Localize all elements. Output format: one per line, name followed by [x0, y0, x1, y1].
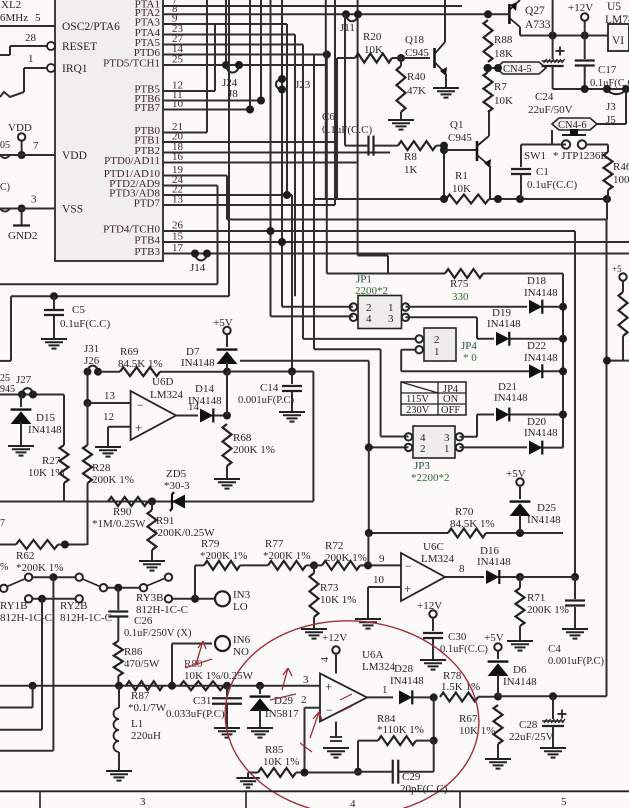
svg-text:D18: D18 [527, 275, 546, 287]
resistor R20 [355, 31, 392, 63]
svg-text:0.001uF(P.C): 0.001uF(P.C) [238, 395, 295, 406]
pin 1 IRQ1 [0, 53, 88, 97]
resistor R73 [310, 565, 357, 629]
resistor R78 [440, 670, 502, 702]
svg-text:28: 28 [25, 32, 37, 44]
svg-text:RY2B: RY2B [60, 600, 88, 612]
svg-text:IN4148: IN4148 [390, 675, 424, 687]
resistor R67 [459, 705, 503, 759]
resistor R79 [195, 538, 268, 570]
zener diode ZD5 [164, 468, 190, 511]
svg-text:IN4148: IN4148 [524, 287, 558, 299]
svg-text:U6A: U6A [362, 649, 383, 661]
svg-text:13: 13 [104, 390, 116, 402]
label JP1 value [355, 285, 388, 297]
svg-text:200K 1%: 200K 1% [92, 474, 134, 486]
pin 27 PTA5 wire [135, 33, 303, 49]
pin 14 PTD6 wire [134, 43, 327, 59]
zone number 3 [140, 796, 146, 808]
resistor R77 [263, 538, 318, 570]
svg-text:D28: D28 [394, 663, 413, 675]
wire R78 to C28 corner [498, 692, 607, 700]
diode D20 IN4148 [460, 416, 564, 455]
wire corner v217 pin24 to left bus [0, 186, 218, 285]
svg-text:R77: R77 [265, 538, 284, 550]
resistor R40 [397, 58, 427, 120]
svg-text:R75: R75 [450, 278, 469, 290]
svg-text:C26: C26 [134, 615, 153, 627]
wire JP3 pin4 feed [314, 349, 409, 436]
wire Q27 base to pin8 line [484, 10, 509, 18]
svg-text:8: 8 [459, 563, 465, 575]
svg-text:C14: C14 [260, 382, 279, 394]
capacitor C31 [166, 686, 242, 728]
svg-text:R20: R20 [363, 31, 382, 43]
svg-text:IN4148: IN4148 [28, 424, 62, 436]
capacitor C30 [423, 631, 488, 660]
red arrow pin2 [300, 712, 322, 752]
svg-text:C): C) [0, 182, 10, 193]
svg-text:*200K 1%: *200K 1% [263, 550, 310, 562]
svg-text:22uF/25V: 22uF/25V [509, 731, 554, 743]
connector CN4-6 [552, 118, 597, 131]
svg-text:R71: R71 [527, 592, 545, 604]
svg-text:6MHz: 6MHz [0, 12, 28, 24]
svg-text:10: 10 [373, 574, 385, 586]
svg-text:R1: R1 [455, 170, 468, 182]
resistor R71 [516, 577, 569, 641]
pin 3 VSS wire [0, 182, 83, 216]
svg-text:*110K 1%: *110K 1% [377, 724, 424, 736]
svg-text:R46: R46 [613, 161, 629, 173]
svg-text:D14: D14 [195, 383, 214, 395]
svg-text:GND2: GND2 [8, 230, 37, 242]
svg-text:945: 945 [0, 384, 15, 395]
wire v292 pin22 down to C14 node [291, 195, 293, 372]
jumper J31 J26 [84, 343, 103, 376]
svg-text:2: 2 [301, 694, 307, 706]
pin 16 PTD0/AD11 wire [104, 151, 358, 167]
resistor R8 [374, 141, 445, 176]
ground R71 [507, 641, 533, 651]
svg-text:7: 7 [33, 140, 39, 152]
pin 20 PTB1 wire [134, 131, 335, 147]
svg-text:R27: R27 [42, 455, 61, 467]
svg-text:NO: NO [233, 646, 249, 658]
svg-text:R85: R85 [265, 744, 284, 756]
svg-text:IN3: IN3 [233, 589, 251, 601]
svg-text:LM78: LM78 [605, 14, 629, 26]
svg-text:J31: J31 [84, 343, 99, 355]
ground D29 [247, 728, 273, 738]
svg-text:5: 5 [35, 12, 41, 24]
pin 24 PTD2/AD9 wire [109, 174, 217, 190]
pin 22 PTD3/AD8 wire [109, 184, 292, 200]
svg-text:330: 330 [452, 291, 469, 303]
svg-text:R28: R28 [92, 462, 111, 474]
svg-text:VDD: VDD [62, 150, 87, 162]
node D7 junction [223, 368, 231, 376]
svg-text:PTD0/AD11: PTD0/AD11 [104, 155, 160, 167]
pin 23 PTA4 wire [135, 23, 295, 39]
resistor R80 [180, 658, 254, 690]
ground R40 [388, 120, 414, 130]
svg-text:+5V: +5V [506, 468, 526, 480]
svg-text:L1: L1 [131, 718, 143, 730]
svg-text:JP1: JP1 [356, 274, 372, 286]
svg-text:SW1: SW1 [524, 150, 546, 162]
svg-text:25: 25 [172, 54, 184, 66]
svg-text:R73: R73 [320, 582, 339, 594]
svg-text:2200*2: 2200*2 [355, 285, 388, 297]
svg-text:IN4148: IN4148 [524, 427, 558, 439]
wire v314 pin14 to JP3 pin4 feed [313, 55, 315, 350]
ground R85 [236, 773, 259, 788]
svg-text:R69: R69 [120, 346, 139, 358]
svg-text:CN4-5: CN4-5 [503, 64, 532, 75]
svg-text:200K 1%: 200K 1% [325, 552, 367, 564]
jumper J3 J5 [606, 89, 626, 126]
op-amp U6A LM324 [303, 649, 396, 722]
ground U6A pin11 [323, 722, 349, 758]
ground R91 [139, 561, 165, 571]
svg-text:R72: R72 [325, 540, 343, 552]
wire relay dot53 down [0, 577, 53, 751]
svg-text:+5: +5 [612, 264, 622, 274]
connector CN4-5 [484, 62, 547, 75]
svg-text:XL2: XL2 [1, 0, 21, 11]
svg-text:ON: ON [443, 394, 459, 405]
wire v607 segment [606, 199, 608, 220]
svg-text:+12V: +12V [322, 632, 347, 644]
resistor R68 [223, 424, 275, 479]
svg-text:3: 3 [140, 796, 146, 808]
pin 19 PTD1/AD10 wire [104, 164, 227, 180]
wire pin19 corner to right bus [227, 176, 606, 220]
ground L1 [106, 771, 132, 781]
wire v553 from top [552, 0, 554, 36]
rail y89 [553, 85, 629, 93]
wire JP3 pin2 down to R70 [365, 447, 373, 537]
wire JP1 feed pin2 [282, 306, 353, 308]
svg-text:7: 7 [0, 518, 5, 529]
ground C28 [540, 748, 566, 758]
svg-text:IN4148: IN4148 [494, 392, 528, 404]
svg-text:C5: C5 [72, 304, 85, 316]
svg-text:D15: D15 [36, 412, 55, 424]
svg-text:+: + [325, 679, 332, 694]
wire v575 long [574, 231, 576, 577]
diode D18 IN4148 [406, 275, 568, 314]
ground C14 [279, 412, 305, 422]
+12V terminal U6A pin4 [320, 632, 347, 674]
comparator line y501 [0, 501, 313, 503]
pin 7 PTA1 wire [135, 0, 462, 11]
red arrow U6A [340, 694, 352, 712]
svg-text:25: 25 [0, 373, 10, 384]
svg-text:0.1uF(C.C): 0.1uF(C.C) [440, 644, 488, 655]
resistor R86 [114, 641, 160, 686]
ground C5 [41, 339, 67, 349]
op-amp U6C LM324 [401, 541, 455, 601]
svg-text:200K 1%: 200K 1% [233, 444, 275, 456]
wire corner v229 to left [11, 0, 229, 296]
ground U6D pin12 [95, 447, 121, 457]
svg-text:Q27: Q27 [525, 5, 545, 17]
svg-text:Q1: Q1 [450, 119, 463, 131]
svg-text:J11: J11 [340, 22, 355, 34]
op-amp U6D LM324 [131, 376, 184, 440]
diode D14 IN4148 [176, 383, 231, 423]
svg-text:* 0: * 0 [463, 352, 477, 364]
regulator U5 box [605, 1, 629, 51]
svg-text:A733: A733 [525, 19, 551, 31]
voltage selection table [401, 382, 466, 416]
svg-text:+: + [404, 581, 411, 596]
svg-text:PTD7: PTD7 [134, 198, 161, 210]
svg-text:812H-1C-C: 812H-1C-C [0, 612, 52, 624]
resistor R62 [0, 540, 87, 574]
svg-text:VSS: VSS [62, 204, 83, 216]
label RY2B [60, 600, 112, 624]
svg-text:J26: J26 [84, 355, 100, 367]
ground GND2 [8, 209, 37, 243]
wire v358 bus [358, 0, 388, 274]
diode D16 IN4148 [477, 545, 579, 584]
svg-text:1: 1 [28, 53, 34, 65]
svg-text:0.1uF/250V (X): 0.1uF/250V (X) [124, 628, 192, 639]
capacitor C24 electrolytic [528, 36, 573, 117]
svg-text:220uH: 220uH [131, 730, 161, 742]
ground C31 [214, 728, 240, 738]
resistor R85 [248, 744, 358, 777]
svg-text:R88: R88 [494, 34, 513, 46]
svg-text:IRQ1: IRQ1 [62, 63, 88, 75]
svg-text:C17: C17 [598, 64, 617, 76]
resistor R70 [369, 506, 563, 538]
svg-text:13: 13 [172, 194, 184, 206]
pin 25 PTD5/TCH1 wire [103, 54, 327, 70]
pin 8 PTA2 wire [135, 3, 488, 19]
svg-text:J14: J14 [190, 262, 206, 274]
svg-text:812H-1C-C: 812H-1C-C [60, 612, 112, 624]
wire U6D in+ pin 12 ground [103, 411, 131, 447]
pin 18 PTB2 wire [134, 141, 390, 157]
svg-text:C30: C30 [448, 631, 467, 643]
svg-text:R67: R67 [459, 713, 478, 725]
wire U6C pin10 ground [368, 574, 401, 619]
pin 17 PTB3 wire [134, 242, 629, 258]
svg-text:R90: R90 [113, 506, 132, 518]
svg-text:J3: J3 [606, 101, 616, 113]
wire R69 line to C14 [227, 368, 313, 376]
wire v287 pin9 down to pin22 wire [283, 24, 291, 199]
connector JP4 [416, 328, 478, 364]
diode D6 IN4148 [488, 651, 538, 696]
pin 21 PTB0 wire [134, 121, 207, 137]
svg-text:0.033uF(P.C): 0.033uF(P.C) [166, 708, 225, 720]
resistor R90 [92, 497, 156, 530]
main rail y199 [314, 195, 611, 203]
pin 11 PTB6 wire [134, 89, 261, 105]
wire U6A pin2 in- [301, 694, 320, 772]
title block border [0, 791, 629, 808]
diode D28 IN4148 [390, 663, 438, 704]
svg-text:R79: R79 [201, 538, 220, 550]
zone number 4 [350, 798, 356, 808]
IC U2 microcontroller box [55, 0, 163, 261]
resistor R69 [98, 346, 227, 376]
svg-text:C29: C29 [402, 771, 421, 783]
+12V terminal C30 [417, 600, 442, 631]
svg-text:U5: U5 [607, 1, 621, 13]
svg-text:R70: R70 [455, 506, 474, 518]
wire v295 pin23 down [294, 35, 296, 297]
wire corner v313 to comparator line [312, 372, 314, 502]
svg-text:C24: C24 [535, 91, 554, 103]
ground Q18 emitter [433, 88, 459, 98]
wire v11 down [0, 296, 11, 361]
jumper J23 [276, 75, 311, 94]
wire J11 down to C6 [344, 14, 346, 145]
wire U6A out pin1 [367, 684, 393, 697]
red arrow D29 [270, 668, 296, 700]
label RY3B [136, 592, 188, 616]
svg-text:3: 3 [388, 313, 394, 325]
wire Q1 collector to R7 [488, 110, 490, 125]
relay RY2B contacts [25, 574, 172, 603]
jumper J23 wire v282 to JP1 pin2 [278, 0, 286, 307]
resistor R27 [28, 395, 69, 502]
svg-text:R87: R87 [131, 690, 150, 702]
+12V terminal [568, 2, 593, 36]
svg-text:C945: C945 [405, 47, 429, 59]
wire corner v32 left [0, 686, 33, 708]
svg-text:20pF(C.C): 20pF(C.C) [400, 783, 448, 795]
svg-text:JP3: JP3 [414, 460, 430, 472]
wire bus v250 [246, 0, 254, 114]
svg-text:R40: R40 [407, 71, 426, 83]
svg-text:4: 4 [366, 313, 372, 325]
svg-text:* JTP1236E: * JTP1236E [553, 150, 607, 162]
diode D19 IN4148 [406, 307, 568, 346]
resistor R28 [83, 403, 134, 545]
svg-text:IN4148: IN4148 [487, 318, 521, 330]
svg-text:3: 3 [303, 674, 309, 686]
svg-text:%: % [0, 562, 8, 573]
node R8-Q1 [440, 142, 448, 199]
main line y686 [0, 682, 320, 690]
svg-text:17: 17 [172, 242, 184, 254]
svg-text:10K 1%: 10K 1% [320, 594, 356, 606]
diode D21 IN4148 [460, 381, 568, 437]
svg-text:C31: C31 [193, 695, 211, 707]
svg-text:R62: R62 [16, 550, 34, 562]
connector JP1 [350, 274, 410, 329]
wire v326b top [325, 0, 327, 199]
transistor Q27 A733 [509, 0, 550, 36]
capacitor C14 [238, 372, 302, 413]
ground U6C pin10 [355, 619, 381, 629]
svg-text:IN4148: IN4148 [477, 556, 511, 568]
jumper J14 on pin17 wire [190, 250, 211, 275]
svg-text:+12V: +12V [417, 600, 442, 612]
svg-text:IN6: IN6 [233, 634, 251, 646]
crystal XL2 label [0, 0, 28, 24]
diode D29 IN5817 [250, 686, 300, 728]
capacitor C4 [548, 577, 605, 667]
wire bus v368 from JP3 top [367, 533, 369, 565]
svg-text:470/5W: 470/5W [124, 658, 160, 670]
svg-text:12: 12 [103, 411, 114, 423]
diode D25 IN4148 [510, 486, 562, 533]
label left 7 [0, 518, 5, 529]
svg-text:*200K 1%: *200K 1% [200, 550, 247, 562]
svg-text:IN4148: IN4148 [188, 395, 222, 407]
resistor R88 [484, 20, 514, 62]
capacitor C1 [511, 145, 577, 200]
svg-text:2: 2 [420, 443, 426, 455]
resistor R46 [604, 145, 629, 200]
resistor R84 feedback [354, 697, 438, 775]
ground R67 [485, 759, 511, 769]
svg-text:10: 10 [172, 98, 184, 110]
svg-text:RY1B: RY1B [0, 600, 28, 612]
+5V terminal D6 [484, 632, 504, 651]
connector IN3 LO [165, 589, 251, 613]
svg-text:15: 15 [172, 231, 184, 243]
wire v326 pin25 to R75 [323, 51, 331, 274]
svg-text:0.1uF(C.C): 0.1uF(C.C) [60, 318, 110, 330]
svg-text:84.5K 1%: 84.5K 1% [450, 518, 495, 530]
connector IN6 NO [172, 634, 251, 686]
svg-text:+5V: +5V [213, 317, 233, 329]
svg-text:LM324: LM324 [362, 661, 396, 673]
red arrow R80 [185, 641, 212, 668]
svg-text:C1: C1 [536, 166, 549, 178]
svg-text:C28: C28 [519, 719, 538, 731]
capacitor C28 electrolytic [509, 696, 567, 748]
svg-text:200K 1%: 200K 1% [527, 604, 569, 616]
connector JP3 [405, 426, 463, 484]
wire v563 diode bus [562, 274, 564, 448]
svg-text:IN4148: IN4148 [524, 352, 558, 364]
zone number 5 [561, 796, 567, 808]
svg-text:RY3B: RY3B [136, 592, 164, 604]
svg-text:+5V: +5V [484, 632, 504, 644]
svg-text:115V: 115V [406, 394, 429, 405]
wire U6C pin9 [379, 553, 385, 565]
inductor L1 [114, 686, 162, 771]
wire relay dot42 down [0, 599, 42, 730]
+5V terminal D25 [506, 468, 526, 486]
resistor R87 [126, 681, 167, 714]
svg-text:OFF: OFF [441, 405, 460, 416]
wire J31 down [84, 372, 92, 407]
pin 7 VDD wire [0, 140, 87, 162]
svg-text:LO: LO [233, 601, 248, 613]
svg-text:RESET: RESET [62, 41, 97, 53]
pin 26 PTD4/TCH0 wire [103, 220, 575, 236]
svg-text:4: 4 [350, 798, 356, 808]
svg-text:C4: C4 [548, 643, 561, 655]
pin 28 RESET [0, 32, 97, 55]
capacitor C5 [44, 292, 110, 339]
svg-text:*1M/0.25W: *1M/0.25W [92, 518, 146, 530]
transistor Q18 C945 [405, 0, 447, 88]
capacitor C6 [322, 111, 374, 156]
resistor R75 [327, 269, 563, 303]
